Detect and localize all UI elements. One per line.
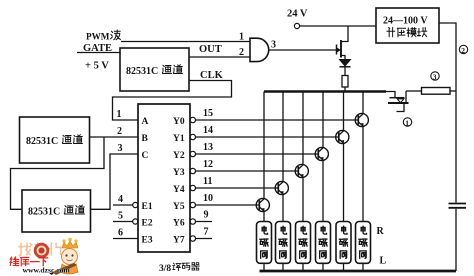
wire valve column 2 lower — [282, 194, 284, 221]
output bubbles Y0-Y7 — [190, 117, 195, 241]
IC U3 82531C channel box 2 — [20, 117, 90, 163]
svg-text:2: 2 — [239, 47, 244, 58]
svg-text:www.dzsc.com: www.dzsc.com — [23, 266, 71, 275]
svg-text:4: 4 — [118, 194, 123, 205]
bottom return bus — [260, 270, 457, 273]
transistor Q3 — [275, 181, 288, 194]
svg-text:11: 11 — [203, 176, 212, 187]
svg-text:Y7: Y7 — [173, 236, 185, 246]
resistor R1 — [342, 76, 348, 88]
resistor R3 — [422, 88, 451, 95]
top supply bus — [264, 90, 386, 93]
wire valve column 4 upper — [322, 92, 324, 148]
svg-text:Y5: Y5 — [173, 202, 185, 212]
svg-text:1: 1 — [117, 109, 122, 120]
solenoid valve 6 — [356, 222, 371, 264]
svg-text:82531C: 82531C — [126, 66, 158, 77]
wire AND output to Q1 gate — [269, 49, 336, 51]
solenoid valve 2 — [276, 222, 291, 264]
wire bus to Q2 gate — [386, 92, 395, 98]
svg-text:Y1: Y1 — [173, 134, 185, 144]
AND gate U2 — [250, 38, 269, 61]
wire Y4 to Q3 base — [196, 187, 276, 189]
transistor Q5 — [315, 147, 328, 160]
svg-text:Y0: Y0 — [173, 117, 185, 127]
wire R1 to bus — [344, 87, 346, 92]
wire Y0 to Q7 base — [196, 119, 356, 121]
wire CLK routed to decoder input A — [113, 81, 232, 121]
svg-text:R: R — [377, 226, 385, 237]
node 3 circled — [431, 72, 439, 82]
wire E3 stub — [113, 238, 138, 240]
wire valve column 3 lower — [302, 177, 304, 221]
wire valve 4 to bottom bus — [322, 263, 324, 270]
svg-text:10: 10 — [203, 193, 213, 204]
svg-text:Y4: Y4 — [173, 185, 185, 195]
wire Y1 to Q6 base — [196, 136, 336, 138]
diode D1 — [340, 60, 351, 67]
svg-text:E3: E3 — [142, 236, 153, 246]
svg-text:15: 15 — [203, 108, 213, 119]
wire D1 to R1 — [344, 67, 346, 76]
wire valve column 4 lower — [322, 160, 324, 221]
svg-text:Y3: Y3 — [173, 168, 185, 178]
wire valve column 6 upper — [362, 92, 364, 114]
svg-text:Y6: Y6 — [173, 219, 185, 229]
svg-text:Y2: Y2 — [173, 151, 185, 161]
wire E2 stub — [113, 221, 133, 223]
wire valve 3 to bottom bus — [302, 263, 304, 270]
svg-text:A: A — [142, 117, 149, 127]
wire valve column 6 lower — [362, 126, 364, 221]
wire branch B to U4 input — [11, 137, 105, 209]
svg-text:82531C: 82531C — [28, 207, 60, 218]
svg-text:OUT: OUT — [199, 44, 222, 55]
svg-text:2: 2 — [117, 126, 122, 137]
transistor Q6 — [336, 130, 349, 143]
wire valve 6 to bottom bus — [362, 263, 364, 270]
IC U1 82531C channel box — [120, 48, 189, 91]
svg-text:2: 2 — [461, 46, 465, 55]
svg-text:L: L — [380, 256, 387, 267]
wire U3 output to decoder B — [90, 136, 139, 138]
wire PWM to AND gate input 1 — [121, 41, 250, 43]
svg-text:3/8: 3/8 — [159, 264, 171, 274]
node PWM input label — [86, 30, 120, 41]
decoder title 3/8 — [159, 263, 199, 274]
svg-text:3: 3 — [271, 40, 276, 51]
svg-text:1: 1 — [239, 32, 244, 43]
wire valve column 5 upper — [343, 92, 345, 131]
svg-text:13: 13 — [203, 142, 213, 153]
wire module output to right rail — [439, 23, 456, 203]
svg-text:14: 14 — [203, 125, 213, 136]
enable E1 bubble — [133, 202, 138, 207]
MOSFET Q1 — [337, 26, 349, 60]
svg-text:+ 5 V: + 5 V — [85, 61, 109, 72]
wire Y2 to Q5 base — [196, 153, 316, 155]
enable E2 bubble — [133, 219, 138, 224]
wire U4 output to decoder C — [91, 154, 139, 209]
wire GATE to U1 — [77, 52, 120, 54]
solenoid valve 5 — [336, 222, 351, 264]
wire valve column 1 upper — [263, 92, 265, 199]
wire rail lower segment — [455, 209, 457, 271]
svg-text:C: C — [142, 151, 149, 161]
svg-text:12: 12 — [203, 159, 213, 170]
svg-text:7: 7 — [204, 227, 209, 238]
decoder IC 3/8 box — [138, 104, 190, 252]
transistor Q4 — [295, 164, 308, 177]
svg-text:B: B — [142, 134, 149, 144]
svg-text:5: 5 — [118, 211, 123, 222]
wire R3 to rail — [450, 90, 456, 92]
wire valve column 3 upper — [302, 92, 304, 165]
terminal 24V — [294, 23, 299, 28]
wire 24V rail to module — [300, 25, 376, 27]
node 2 circled — [459, 45, 467, 55]
svg-text:PWM: PWM — [86, 32, 110, 42]
svg-text:6: 6 — [118, 228, 123, 239]
MOSFET Q2 — [388, 91, 409, 112]
transistor Q2v — [256, 198, 269, 211]
wire Q2 to R3 — [406, 90, 422, 92]
watermark logo dzsc — [10, 238, 78, 275]
svg-text:E2: E2 — [142, 219, 153, 229]
boost module box 24-100V — [376, 8, 439, 43]
IC U4 82531C channel box 3 — [22, 190, 91, 232]
svg-text:9: 9 — [204, 210, 209, 221]
wire valve 5 to bottom bus — [343, 263, 345, 270]
wire E1 stub — [113, 204, 133, 206]
wire Y7 stub — [196, 238, 213, 240]
transistor Q7 — [355, 113, 368, 126]
solenoid valve 3 — [296, 222, 311, 264]
capacitor C1 — [449, 204, 467, 208]
wire valve column 2 upper — [282, 92, 284, 182]
wire valve 1 to bottom bus — [263, 263, 265, 270]
wire valve column 5 lower — [343, 143, 345, 221]
wire valve 2 to bottom bus — [282, 263, 284, 270]
solenoid valve 4 — [316, 222, 331, 264]
svg-text:1: 1 — [405, 119, 409, 128]
node 1 circled — [403, 118, 411, 128]
svg-text:3: 3 — [118, 143, 123, 154]
svg-text:3: 3 — [433, 73, 437, 82]
svg-text:E1: E1 — [142, 202, 153, 212]
svg-text:82531C: 82531C — [26, 136, 58, 147]
svg-text:24—100 V: 24—100 V — [383, 16, 428, 27]
wire valve column 1 lower — [263, 211, 265, 221]
wire OUT to AND gate input 2 — [189, 56, 250, 58]
solenoid valve 1 — [257, 222, 272, 264]
svg-text:CLK: CLK — [200, 70, 224, 81]
wire Y6 stub — [196, 221, 213, 223]
wire Y5 to Q2v base — [196, 204, 257, 206]
svg-text:24 V: 24 V — [287, 9, 308, 20]
wire Y3 to Q4 base — [196, 170, 296, 172]
